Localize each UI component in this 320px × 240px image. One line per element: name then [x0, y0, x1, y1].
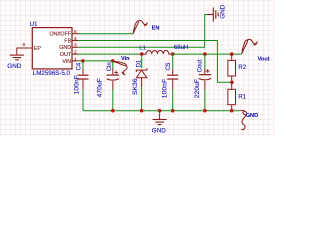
- resistor R1: [228, 89, 236, 104]
- capacitor Cout wires: [204, 54, 206, 69]
- inductor L1: [142, 51, 174, 55]
- node Cin junction: [111, 59, 115, 63]
- rail junction Cout: [203, 109, 207, 113]
- svg-text:100nF: 100nF: [74, 75, 81, 94]
- wire L1 to Vout rail: [173, 53, 242, 55]
- svg-text:68uH: 68uH: [174, 45, 188, 51]
- pin stub 2: [72, 53, 78, 55]
- netflag EN: [133, 20, 147, 33]
- resistor R1 stub bottom: [231, 105, 233, 111]
- svg-text:EN: EN: [152, 25, 160, 31]
- rail junction C5: [171, 109, 175, 113]
- diode D1 wire top: [141, 54, 143, 68]
- svg-text:100nF: 100nF: [162, 79, 169, 98]
- Cout plus sign: [206, 69, 210, 73]
- rail junction Cin: [111, 109, 115, 113]
- svg-text:EP: EP: [34, 46, 42, 52]
- wire pin1 VIN row: [78, 60, 113, 62]
- svg-text:GND: GND: [59, 45, 71, 51]
- svg-text:Vout: Vout: [258, 57, 270, 63]
- capacitor Cin wires: [112, 61, 114, 69]
- wire pin2 OUT row to inductor: [78, 53, 142, 55]
- ground rail wire: [83, 110, 240, 112]
- svg-text:220uF: 220uF: [194, 79, 201, 98]
- Cin plus sign: [114, 71, 118, 75]
- svg-text:C4: C4: [76, 62, 82, 70]
- svg-text:FB: FB: [64, 38, 71, 44]
- svg-text:Cin: Cin: [107, 62, 113, 71]
- svg-text:D1: D1: [137, 59, 143, 67]
- svg-text:R2: R2: [238, 65, 246, 71]
- svg-text:Vin: Vin: [121, 56, 130, 62]
- capacitor C4 wires: [82, 61, 84, 69]
- svg-text:L1: L1: [139, 45, 145, 51]
- node L1 out junction: [171, 52, 175, 56]
- rail junction D1: [140, 109, 144, 113]
- svg-text:OUT: OUT: [60, 52, 72, 58]
- svg-text:U1: U1: [30, 21, 38, 28]
- ground symbol bottom: [153, 120, 167, 125]
- svg-text:ON#OFF: ON#OFF: [49, 32, 72, 38]
- ground symbol top (rotated): [208, 7, 219, 21]
- resistor R1 stub top: [231, 82, 233, 89]
- svg-text:470uF: 470uF: [96, 78, 103, 97]
- resistor R2 stub bottom: [231, 76, 233, 82]
- wire pin3 GND up to top ground: [78, 15, 208, 48]
- svg-text:Cout: Cout: [197, 59, 203, 72]
- svg-text:GND: GND: [7, 63, 21, 70]
- node R2 top junction: [230, 52, 234, 56]
- resistor R2: [228, 60, 236, 76]
- svg-text:C5: C5: [166, 62, 172, 70]
- node FB divider junction: [230, 81, 234, 85]
- pin stub 5: [72, 33, 78, 35]
- svg-text:VIN: VIN: [62, 59, 71, 65]
- wire pin4 FB to divider: [78, 41, 232, 83]
- ground symbol left: [10, 55, 24, 60]
- node Cout junction: [203, 52, 207, 56]
- diode D1 (schottky): [136, 68, 147, 72]
- svg-text:R1: R1: [238, 94, 246, 100]
- rail junction R1: [230, 109, 234, 113]
- wire pin5 ON#OFF to EN: [78, 33, 133, 35]
- netflag GND right: [240, 111, 247, 130]
- capacitor Cin (polarized): [107, 75, 119, 80]
- capacitor C5: [167, 75, 178, 79]
- wire EP pin6 to ground: [17, 48, 33, 55]
- pin stub 1: [72, 60, 78, 62]
- op-amp U1 (regulator IC LM2596S-5.0 body): [32, 28, 72, 69]
- svg-text:GND: GND: [246, 113, 258, 119]
- svg-text:6: 6: [23, 42, 26, 48]
- pin stub 4: [72, 40, 78, 42]
- rail junction GND stem: [158, 109, 162, 113]
- pin stub 3: [72, 46, 78, 48]
- capacitor Cout (polarized): [199, 75, 211, 80]
- svg-text:GND: GND: [152, 128, 166, 135]
- netflag Vout: [242, 39, 258, 54]
- resistor R2 stub top: [231, 54, 233, 60]
- svg-text:GND: GND: [220, 4, 227, 18]
- capacitor C5 wires: [172, 54, 174, 69]
- capacitor C4: [78, 75, 89, 79]
- netflag Vin: [113, 60, 127, 75]
- svg-text:SK36: SK36: [132, 78, 139, 95]
- wire GND stem bottom: [159, 111, 161, 114]
- node C4 junction: [81, 59, 85, 63]
- node OUT/D1 junction: [140, 52, 144, 56]
- svg-text:LM2596S-5.0: LM2596S-5.0: [33, 70, 71, 77]
